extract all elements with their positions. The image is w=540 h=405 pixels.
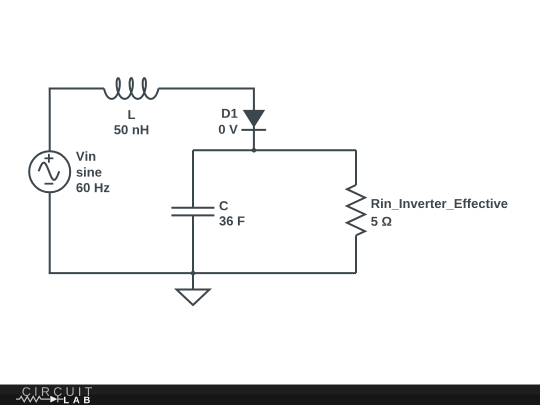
label C (220, 201, 229, 210)
wire top rail right (inductor to diode corner) (159, 89, 254, 111)
wire source bottom lead (49, 192, 51, 273)
logo resistor squiggle (16, 396, 64, 402)
inductor L coil (104, 78, 159, 99)
logo diode cathode bar + lead (57, 396, 59, 402)
junction node at diode/mid rail (252, 148, 257, 153)
label Vin (76, 151, 95, 160)
wire mid rail (193, 149, 356, 151)
logo text LAB (64, 397, 90, 404)
wire bottom rail (49, 272, 356, 274)
ground stub wire (192, 273, 194, 289)
label 50 nH (114, 125, 148, 134)
wire resistor bottom lead (355, 235, 357, 273)
logo diode triangle (50, 396, 57, 403)
label D1 (222, 109, 237, 118)
ground symbol triangle (177, 290, 210, 306)
wire diode cathode to mid rail junction (253, 127, 255, 151)
label 36 F (219, 216, 244, 225)
junction node at cap/ground/bottom rail (191, 271, 196, 276)
wire top rail left (corner to inductor) (49, 88, 104, 90)
capacitor C plates (171, 208, 214, 216)
wire resistor top lead (355, 150, 357, 185)
label 60 Hz (76, 183, 109, 192)
minus sign (45, 183, 54, 185)
voltage source Vin circle (29, 151, 70, 192)
label L (128, 110, 135, 119)
wire capacitor bottom lead (192, 215, 194, 273)
label 0 V (219, 125, 238, 134)
label Rin_Inverter_Effective (372, 199, 508, 210)
wire top-left vertical (source to top rail) (49, 89, 51, 152)
resistor Rin_Inverter_Effective zigzag (347, 185, 365, 235)
CircuitLab logo text CIRCUIT (22, 387, 92, 396)
wire capacitor top lead (192, 150, 194, 207)
plus sign (45, 154, 54, 163)
diode D1 body (241, 110, 266, 130)
label sine (76, 167, 101, 177)
footer bar (0, 385, 540, 405)
sine wave inside source (39, 163, 60, 180)
label 5 ohm (371, 217, 391, 226)
